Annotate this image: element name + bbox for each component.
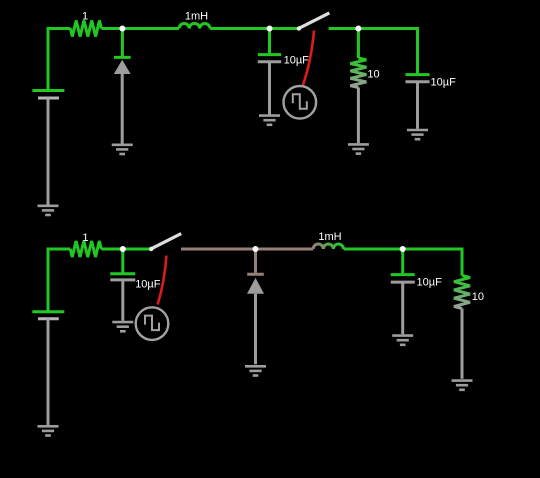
wire bottom-left from battery V2 up and right to resistor R3 [48,249,70,311]
red control wire from switch S1 to square-wave source U1 [303,31,314,87]
battery V1 long plate [32,89,64,92]
resistor R3 [70,241,101,257]
wire from S1 through node C to top-right corner down to capacitor C2 [329,29,418,75]
svg-text:1mH: 1mH [185,10,208,22]
ground below R2 [348,144,369,153]
switch S2 pivot post dot [149,247,153,251]
ground below C2 [407,130,428,139]
wire battery V2 to ground [47,319,50,425]
red control wire from switch S2 to square-wave source U2 [158,256,167,305]
diode D1 triangle [114,60,131,74]
svg-text:10: 10 [367,69,379,81]
wire node A down to diode D1 [121,29,124,57]
wire diode D2 to ground [254,294,257,365]
ground below R4 [452,381,473,390]
ground below C1 [259,116,280,125]
wire node D down to capacitor C3 [121,249,124,273]
wire resistor R2 to ground [357,88,360,144]
svg-text:10: 10 [472,291,484,303]
ground below C4 [392,336,413,345]
wire node C down to resistor R2 [357,29,360,59]
wire capacitor C3 to ground [121,280,124,321]
svg-text:10µF: 10µF [431,77,457,89]
node A junction dot [119,26,125,32]
svg-text:1: 1 [82,11,88,23]
ground below C3 [112,322,133,331]
wire battery V1 to ground [47,98,50,205]
resistor R1 [70,21,101,37]
switch S1 (open blade) [299,13,330,28]
ground below D1 [112,145,133,154]
wire node B down to capacitor C1 [268,29,271,54]
square-wave source U2 [136,307,169,340]
capacitor C3 bottom plate [110,278,135,281]
wire node F down to capacitor C4 [401,249,404,273]
wire top-left from battery V1 up and right to resistor R1 [48,29,70,91]
capacitor C1 top plate [258,53,281,56]
capacitor C1 bottom plate [258,60,281,63]
svg-text:1: 1 [82,232,88,244]
capacitor C4 top plate [391,273,415,276]
node C junction dot [355,26,361,32]
wire capacitor C2 to ground [416,82,419,129]
ground below V1 [38,206,59,215]
svg-text:1mH: 1mH [318,231,341,243]
ground below D2 [245,366,266,375]
wire from L2 through node F to corner down to resistor R4 [344,249,463,276]
wire capacitor C4 to ground [401,282,404,334]
wire from L1 through node B to switch S1 [210,27,299,30]
wire capacitor C1 to ground [268,62,271,115]
node E junction dot [253,246,259,252]
switch S2 (open blade) [151,234,181,249]
svg-text:10µF: 10µF [284,54,310,66]
switch S1 pivot post dot [297,26,301,30]
wire resistor R4 to ground [461,309,464,379]
capacitor C2 bottom plate [406,80,430,83]
wire node E down to diode D2 [254,249,257,273]
ground below V2 [38,426,59,435]
wire from R1 through node A to inductor L1 [101,27,179,30]
node D junction dot [120,246,126,252]
wire from S2 through node E to inductor L2 (negative rail) [181,248,313,251]
battery V2 short plate [38,317,59,320]
resistor R2 [350,58,366,88]
battery V1 short plate [38,97,59,100]
node F junction dot [400,246,406,252]
diode D2 triangle [247,278,264,294]
diode D1 cathode bar [114,56,131,59]
wire from R3 to node D [101,248,151,251]
battery V2 long plate [32,310,64,313]
inductor L1 [179,23,210,28]
diode D2 cathode bar [247,273,264,276]
capacitor C3 top plate [110,272,135,275]
capacitor C2 top plate [406,73,430,76]
wire diode D1 to ground [121,74,124,144]
svg-text:10µF: 10µF [417,277,443,289]
node B junction dot [267,26,273,32]
resistor R4 [454,276,470,309]
inductor L2 [313,244,343,249]
capacitor C4 bottom plate [391,281,415,284]
square-wave source U1 [284,86,317,119]
svg-text:10µF: 10µF [135,278,161,290]
